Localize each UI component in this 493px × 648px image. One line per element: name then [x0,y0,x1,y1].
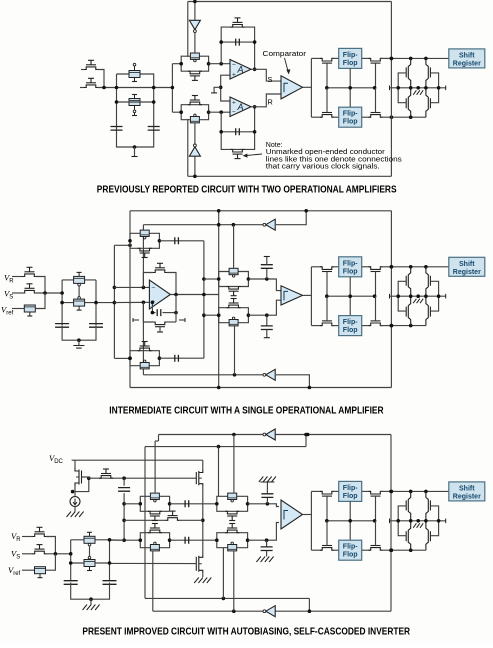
wire [362,325,371,327]
wire gate to clock rail [375,63,377,88]
junction [152,86,156,90]
junction [219,62,223,66]
wire clock rail-A [145,597,309,599]
wire bus [123,478,125,486]
wire gate to clock rail [326,88,328,113]
wire ground stub [78,340,80,345]
junction [142,286,146,290]
transmission gate TG5 gate box [229,268,238,274]
wire right clock vertical [390,2,392,177]
junction [113,301,117,305]
pass transistor bottom-right [369,323,383,326]
wire splitter vertical [310,58,312,117]
wire [266,482,268,494]
wire M0 gate [82,477,89,478]
wire [381,116,392,118]
svg-text:−: − [232,62,236,69]
junction [174,293,178,297]
junction [253,68,257,72]
wire [266,268,268,279]
transmission gate TG1 upper path [181,56,208,64]
wire gate to clock rail [375,272,377,297]
junction [373,519,377,523]
wire bus top wrap [114,244,130,246]
junction [348,519,352,523]
ground input network [83,605,100,611]
wire left tall vertical [144,447,146,599]
transistor N2 bubble [78,297,81,300]
junction latch [437,519,441,523]
svg-text:VDC: VDC [49,453,64,465]
junction [128,357,132,361]
transmission gate TG4 upper path [130,351,159,359]
svg-text:Flop: Flop [343,60,358,67]
wire gate stub [179,319,185,321]
wire stub [159,327,161,332]
transistor S1 gate stub [134,66,136,71]
wire mid rail [71,562,110,564]
wire [46,553,71,555]
junction [232,433,236,437]
wire bottom output rail [391,549,426,551]
transistor Vref [24,305,35,312]
junction [113,286,117,290]
junction [202,293,206,297]
wire [308,598,310,611]
wire clock rail p3 outer [159,434,392,436]
junction [115,86,119,90]
wire stem vertical [171,64,173,112]
wire comparator output [303,86,312,88]
junction [69,561,73,565]
wire mid row [124,519,166,521]
svg-text:VS: VS [4,289,13,301]
transistor N3 bubble [88,543,91,546]
transmission gate TG7 nmos [148,511,162,514]
wire plus input [114,301,149,303]
transmission gate TG9 right node [168,538,172,542]
wire [172,111,181,113]
svg-text:Flip-: Flip- [343,52,358,59]
junction [151,301,155,305]
transmission gate TG7 lower path [140,504,169,512]
capacitor C1 [111,127,123,131]
flip-flop FF1 [339,481,362,501]
wire TG7 gate drop [154,441,156,493]
svg-text:PREVIOUSLY REPORTED CIRCUIT WI: PREVIOUSLY REPORTED CIRCUIT WITH TWO OPE… [97,184,397,195]
junction latch [409,519,413,523]
transmission gate TG7 left node [139,502,143,506]
wire [195,477,197,479]
wire clock rail top outer [130,210,391,212]
wire bus bottom wrap [114,357,130,359]
transmission gate TG3 left node [128,239,132,243]
wire sample vertical [203,241,205,358]
wire VS lead [22,553,33,555]
junction [108,538,112,542]
transmission gate TG9 gate box [150,545,159,551]
pass transistor top-left [320,58,334,61]
junction [389,548,393,552]
op-amp A1 [230,60,251,80]
transmission gate TG3 right node [158,239,162,243]
transmission gate TG5 upper path [219,272,249,280]
svg-text:INTERMEDIATE CIRCUIT WITH A SI: INTERMEDIATE CIRCUIT WITH A SINGLE OPERA… [109,405,383,416]
junction [217,223,221,227]
wire latch gate lead lower [430,88,438,103]
svg-text:Flop: Flop [343,327,358,334]
wire inner wrap to plus [142,302,144,375]
wire [70,540,72,581]
pass transistor top-right [369,491,383,494]
wire big loop left [143,302,153,322]
wire local loop right [167,273,176,295]
junction [325,294,329,298]
transmission gate TG2 right node [207,110,211,114]
svg-text:Flop: Flop [343,268,358,275]
wire latch gate lead lower [430,296,438,311]
tick open end [390,294,446,299]
junction [424,490,428,494]
junction [174,311,178,315]
svg-text:Flip-: Flip- [343,319,358,326]
transmission gate TG8 right node [246,502,250,506]
transistor VR p3 [33,534,47,537]
junction [308,609,312,613]
wire A2 feedback outer [221,107,254,150]
capacitor A3 feedback [157,309,161,316]
wire gate to clock rail [375,296,377,321]
wire to op-amp stage [117,87,173,89]
wire [74,460,76,468]
tick open end [211,92,217,94]
wire A1 minus input [209,63,230,65]
wire Vref lead [12,308,24,310]
junction [233,373,237,377]
capacitor C14 [103,581,117,585]
capacitor C7 [261,265,273,269]
junction [253,105,257,109]
wire sampling loop [117,74,154,147]
pass transistor bottom-left [320,115,334,118]
wire clock rail top inner [143,224,264,226]
transmission gate TG8 left node [215,502,219,506]
wire [362,490,371,492]
transmission gate TG7 right node [168,502,172,506]
svg-text:Flop: Flop [343,493,358,500]
junction [409,265,413,269]
latch gate bars [429,276,431,317]
transmission gate TG1 lower path [181,64,208,71]
wire [332,116,339,118]
wire [362,549,371,551]
wire [332,325,339,327]
wire top clock rail [188,1,392,3]
ground latch [413,299,423,304]
pass transistor top-left [320,267,334,270]
wire right clock vertical p3 [390,435,392,612]
svg-text:A: A [237,102,244,112]
transmission gate TG8 upper path [217,496,248,504]
svg-text:PRESENT IMPROVED CIRCUIT WITH: PRESENT IMPROVED CIRCUIT WITH AUTOBIASIN… [82,626,410,637]
wire [98,70,105,88]
wire gate to clock rail [375,496,377,521]
junction [94,301,98,305]
wire ground stub [90,599,92,604]
junction [60,301,64,305]
svg-text:Register: Register [453,493,481,500]
wire gate to clock rail [375,88,377,113]
latch gate bars [429,500,431,541]
wire latch gate lead upper [398,73,406,88]
transmission gate TG6 upper path [219,308,249,316]
junction [253,130,257,134]
svg-text:+: + [232,100,236,107]
wire latch gate lead upper [430,73,438,88]
svg-text:Flip-: Flip- [343,544,358,551]
transmission gate TG4 gate box [140,363,149,369]
wire [124,503,140,505]
wire inverter input [194,2,196,21]
wire [158,435,160,442]
junction [122,502,126,506]
wire clock rail p3 inner [145,446,306,448]
junction [424,57,428,61]
pass transistor top-right [369,58,383,61]
inverter INV2 [189,147,200,156]
wire A2 feedback cap rail [221,131,254,133]
transmission gate TG6 nmos [227,305,241,308]
pass transistor bottom-left [320,323,334,326]
wire inverter output to TG1 [194,32,196,52]
capacitor C11 [185,537,189,544]
wire A2 out to comparator R [251,94,281,107]
wire [170,539,217,541]
wire bottom rail [62,325,96,340]
svg-text:R: R [268,97,273,106]
junction [142,301,146,305]
tick open end [132,156,138,158]
wire minus input [114,286,149,288]
transmission gate TG1 left node [179,62,183,66]
junction [89,597,93,601]
transmission gate TG8 lower path [217,504,248,512]
wire to bottom pass transistor [311,325,322,327]
junction [108,561,112,565]
wire [46,554,56,570]
wire gate tie [75,478,89,491]
junction [348,86,352,90]
wire A1 feedback outer [221,27,254,69]
wire to comparator + [248,504,279,507]
wire VR lead [22,536,33,538]
inverter INV4 [266,369,275,380]
wire A1 plus to A2 plus [221,75,230,101]
ground panel2 [73,346,84,349]
wire right clock vertical [390,211,392,388]
wire TG10 gate drop [233,551,235,612]
transistor input T2 [84,85,98,88]
wire bottom clock rail [188,175,392,177]
svg-text:Flip-: Flip- [343,485,358,492]
junction [222,597,226,601]
wire latch gate lead upper [430,281,438,296]
junction [253,40,257,44]
wire big loop right [167,321,176,323]
wire outer loop left vertical [129,211,131,388]
junction [390,265,394,269]
shift register [449,482,485,501]
wire [74,507,76,512]
junction [304,433,308,437]
svg-text:Shift: Shift [459,485,475,492]
junction [217,386,221,390]
wire Vref lead [22,569,35,571]
wire left vertical [61,280,63,325]
wire FF1-FF2 link [349,277,351,316]
wire TG10 L drop [222,548,224,599]
wire to shift register [391,266,448,268]
latch branch vertical [408,58,410,117]
capacitor C4 [89,324,103,328]
wire to top pass transistor [311,57,322,59]
wire input [80,87,85,89]
mosfet M2 [199,554,203,573]
transmission gate TG9 lower path [140,540,169,548]
wire TG5 gate [233,225,235,269]
wire latch gate lead upper [430,506,438,521]
wire to comparator - [248,523,279,541]
flip-flop FF1 [339,48,362,68]
wire bottom rail [71,583,110,600]
wire TG2 gate drop [187,119,189,176]
junction [390,324,394,328]
wire right vertical [95,280,97,325]
wire FF1-FF2 link [349,68,351,107]
junction [424,265,428,269]
capacitor C13 [64,581,78,585]
transmission gate TG3 gate box [140,230,149,236]
junction [390,265,394,269]
wire to bottom pass transistor [311,116,322,118]
mosfet M0 [75,468,79,486]
junction latch [409,294,413,298]
wire TG8 L gate drop [218,447,220,497]
transmission gate TG4 right node [158,356,162,360]
junction [122,538,126,542]
junction [71,490,75,494]
transistor mid [166,518,180,521]
junction [152,100,156,104]
junction latch [437,86,441,90]
wire [362,57,371,59]
transmission gate TG1 nmos [188,71,202,74]
svg-text:−: − [232,109,236,116]
svg-text:VR: VR [11,531,21,543]
wire cap loop [151,302,153,312]
transistor VR [23,274,37,277]
wire [266,330,268,338]
wire [266,551,268,557]
svg-text:Vref: Vref [8,565,21,577]
junction [217,445,221,449]
transmission gate TG6 lower path [219,315,249,323]
junction latch [424,86,428,90]
wire [98,87,117,89]
inverter INV6 [266,606,275,617]
svg-text:+: + [232,71,236,78]
wire latch mid row [390,520,446,522]
transmission gate TG9 upper path [140,533,169,541]
wire latch gate lead upper [398,281,406,296]
wire clock rail bottom outer [130,387,391,389]
wire latch mid row [390,87,446,89]
junction latch [424,519,428,523]
wire input [81,69,85,71]
svg-text:that carry various clock signa: that carry various clock signals. [266,164,380,171]
transmission gate TG6 gate box [229,320,238,326]
junction [266,502,270,506]
transmission gate TG6 right node [247,313,251,317]
latch branch vertical [426,58,428,117]
wire [332,549,339,551]
wire TG9 gate drop [152,551,154,612]
wire [381,325,392,327]
transmission gate TG2 gate box [190,117,199,123]
wire [381,490,392,492]
wire inverter input from rail [194,157,196,177]
transmission gate TG7 upper path [140,496,169,504]
transistor S2 [129,99,140,106]
capacitor autobias [118,488,130,492]
wire mid rail [62,302,114,304]
transmission gate TG10 left node [215,538,219,542]
transistor bias [99,476,113,479]
wire A1 out to comparator S [251,69,281,81]
transmission gate TG9 left node [139,538,143,542]
wire latch gate lead lower [430,521,438,536]
junction [219,86,223,90]
transmission gate TG10 upper path [217,533,248,541]
junction [409,324,413,328]
wire [332,57,339,59]
wire VR lead [12,276,23,278]
transistor S1 [129,71,140,78]
junction [77,338,81,342]
wire TG6 gate [234,325,236,375]
wire [362,116,371,118]
svg-text:Comparator: Comparator [263,49,307,58]
junction [128,244,132,248]
pass transistor bottom-left [320,548,334,551]
wire TG8 gate drop [233,435,235,494]
junction [409,548,413,552]
wire cascode mid [202,487,204,555]
wire [266,315,268,326]
junction [304,209,308,213]
transmission gate TG6 left node [217,313,221,317]
transistor A2 reset [231,149,245,152]
wire comparator output [303,294,312,296]
junction [202,277,206,281]
wire [36,277,45,294]
wire [46,537,55,554]
transistor A1 reset [231,25,245,28]
transmission gate TG10 lower path [217,540,248,548]
wire [202,460,204,469]
wire [332,490,339,492]
wire clock stub [134,147,136,156]
